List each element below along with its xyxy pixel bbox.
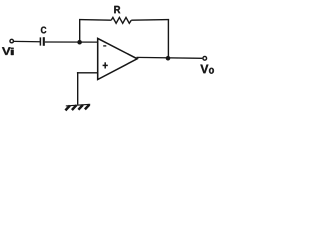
op-amp U1	[98, 38, 138, 79]
node junction at output	[166, 56, 171, 61]
wire top rail right	[131, 19, 169, 22]
wire capacitor to node	[45, 41, 98, 43]
label Vo	[200, 65, 208, 74]
wire input to capacitor	[14, 40, 40, 42]
op-amp plus sign	[103, 62, 108, 68]
capacitor C	[40, 37, 43, 46]
label R	[114, 6, 120, 13]
ground	[65, 104, 90, 110]
label Vi	[2, 47, 11, 55]
wire feedback riser	[79, 20, 81, 42]
node junction at inverting input	[77, 40, 82, 45]
resistor R	[111, 17, 131, 23]
wire output	[137, 56, 203, 59]
wire top rail left	[79, 19, 111, 22]
wire down to ground	[77, 72, 79, 105]
input terminal Vi	[10, 39, 14, 43]
op-amp minus sign	[103, 45, 106, 47]
wire right rail down	[167, 19, 169, 58]
wire noninverting input	[77, 72, 98, 74]
label C	[41, 27, 46, 34]
output terminal Vo	[203, 56, 207, 60]
